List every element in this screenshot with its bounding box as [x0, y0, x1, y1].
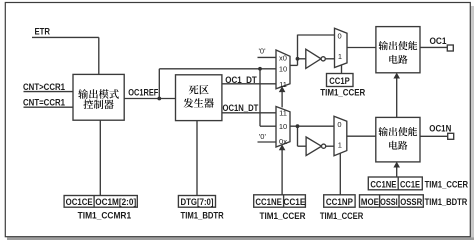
- svg-text:OSSR: OSSR: [400, 197, 422, 207]
- svg-text:OC1_DT: OC1_DT: [225, 75, 257, 85]
- svg-text:ETR: ETR: [35, 27, 51, 37]
- svg-text:0: 0: [337, 120, 341, 129]
- svg-text:TIM1_CCMR1: TIM1_CCMR1: [78, 210, 132, 220]
- svg-text:OC1CE: OC1CE: [66, 197, 93, 207]
- svg-text:DTG[7:0]: DTG[7:0]: [181, 197, 214, 207]
- svg-text:OSSI: OSSI: [380, 197, 398, 207]
- svg-text:11: 11: [279, 108, 287, 117]
- svg-text:TIM1_BDTR: TIM1_BDTR: [425, 197, 468, 207]
- svg-text:x0: x0: [279, 54, 287, 63]
- svg-text:TIM1_CCER: TIM1_CCER: [320, 88, 365, 98]
- svg-text:OC1N: OC1N: [429, 123, 451, 133]
- svg-text:CC1P: CC1P: [329, 76, 350, 86]
- svg-text:11: 11: [279, 80, 287, 89]
- svg-text:CC1E: CC1E: [400, 179, 420, 189]
- svg-text:CC1NE: CC1NE: [255, 197, 282, 207]
- svg-text:CNT>CCR1: CNT>CCR1: [23, 82, 65, 92]
- svg-text:0x: 0x: [279, 137, 287, 146]
- svg-text:CNT=CCR1: CNT=CCR1: [23, 98, 65, 108]
- svg-text:10: 10: [279, 64, 287, 73]
- svg-text:1: 1: [338, 52, 342, 61]
- svg-text:MOE: MOE: [361, 197, 379, 207]
- svg-text:'0': '0': [258, 47, 266, 56]
- svg-text:1: 1: [338, 141, 342, 150]
- svg-text:CC1NE: CC1NE: [370, 179, 396, 189]
- svg-text:OC1N_DT: OC1N_DT: [223, 103, 259, 113]
- svg-text:OC1: OC1: [430, 36, 447, 46]
- svg-text:OC1REF: OC1REF: [128, 88, 158, 98]
- svg-text:TIM1_CCER: TIM1_CCER: [260, 211, 306, 221]
- svg-text:TIM1_CCER: TIM1_CCER: [320, 211, 364, 221]
- svg-text:OC1M[2:0]: OC1M[2:0]: [95, 197, 136, 207]
- svg-text:10: 10: [279, 122, 287, 131]
- svg-text:CC1NP: CC1NP: [326, 197, 353, 207]
- svg-text:CC1E: CC1E: [283, 197, 305, 207]
- svg-text:'0': '0': [259, 132, 267, 141]
- svg-text:TIM1_BDTR: TIM1_BDTR: [181, 210, 224, 220]
- svg-text:0: 0: [338, 32, 342, 41]
- svg-text:TIM1_CCER: TIM1_CCER: [425, 179, 469, 189]
